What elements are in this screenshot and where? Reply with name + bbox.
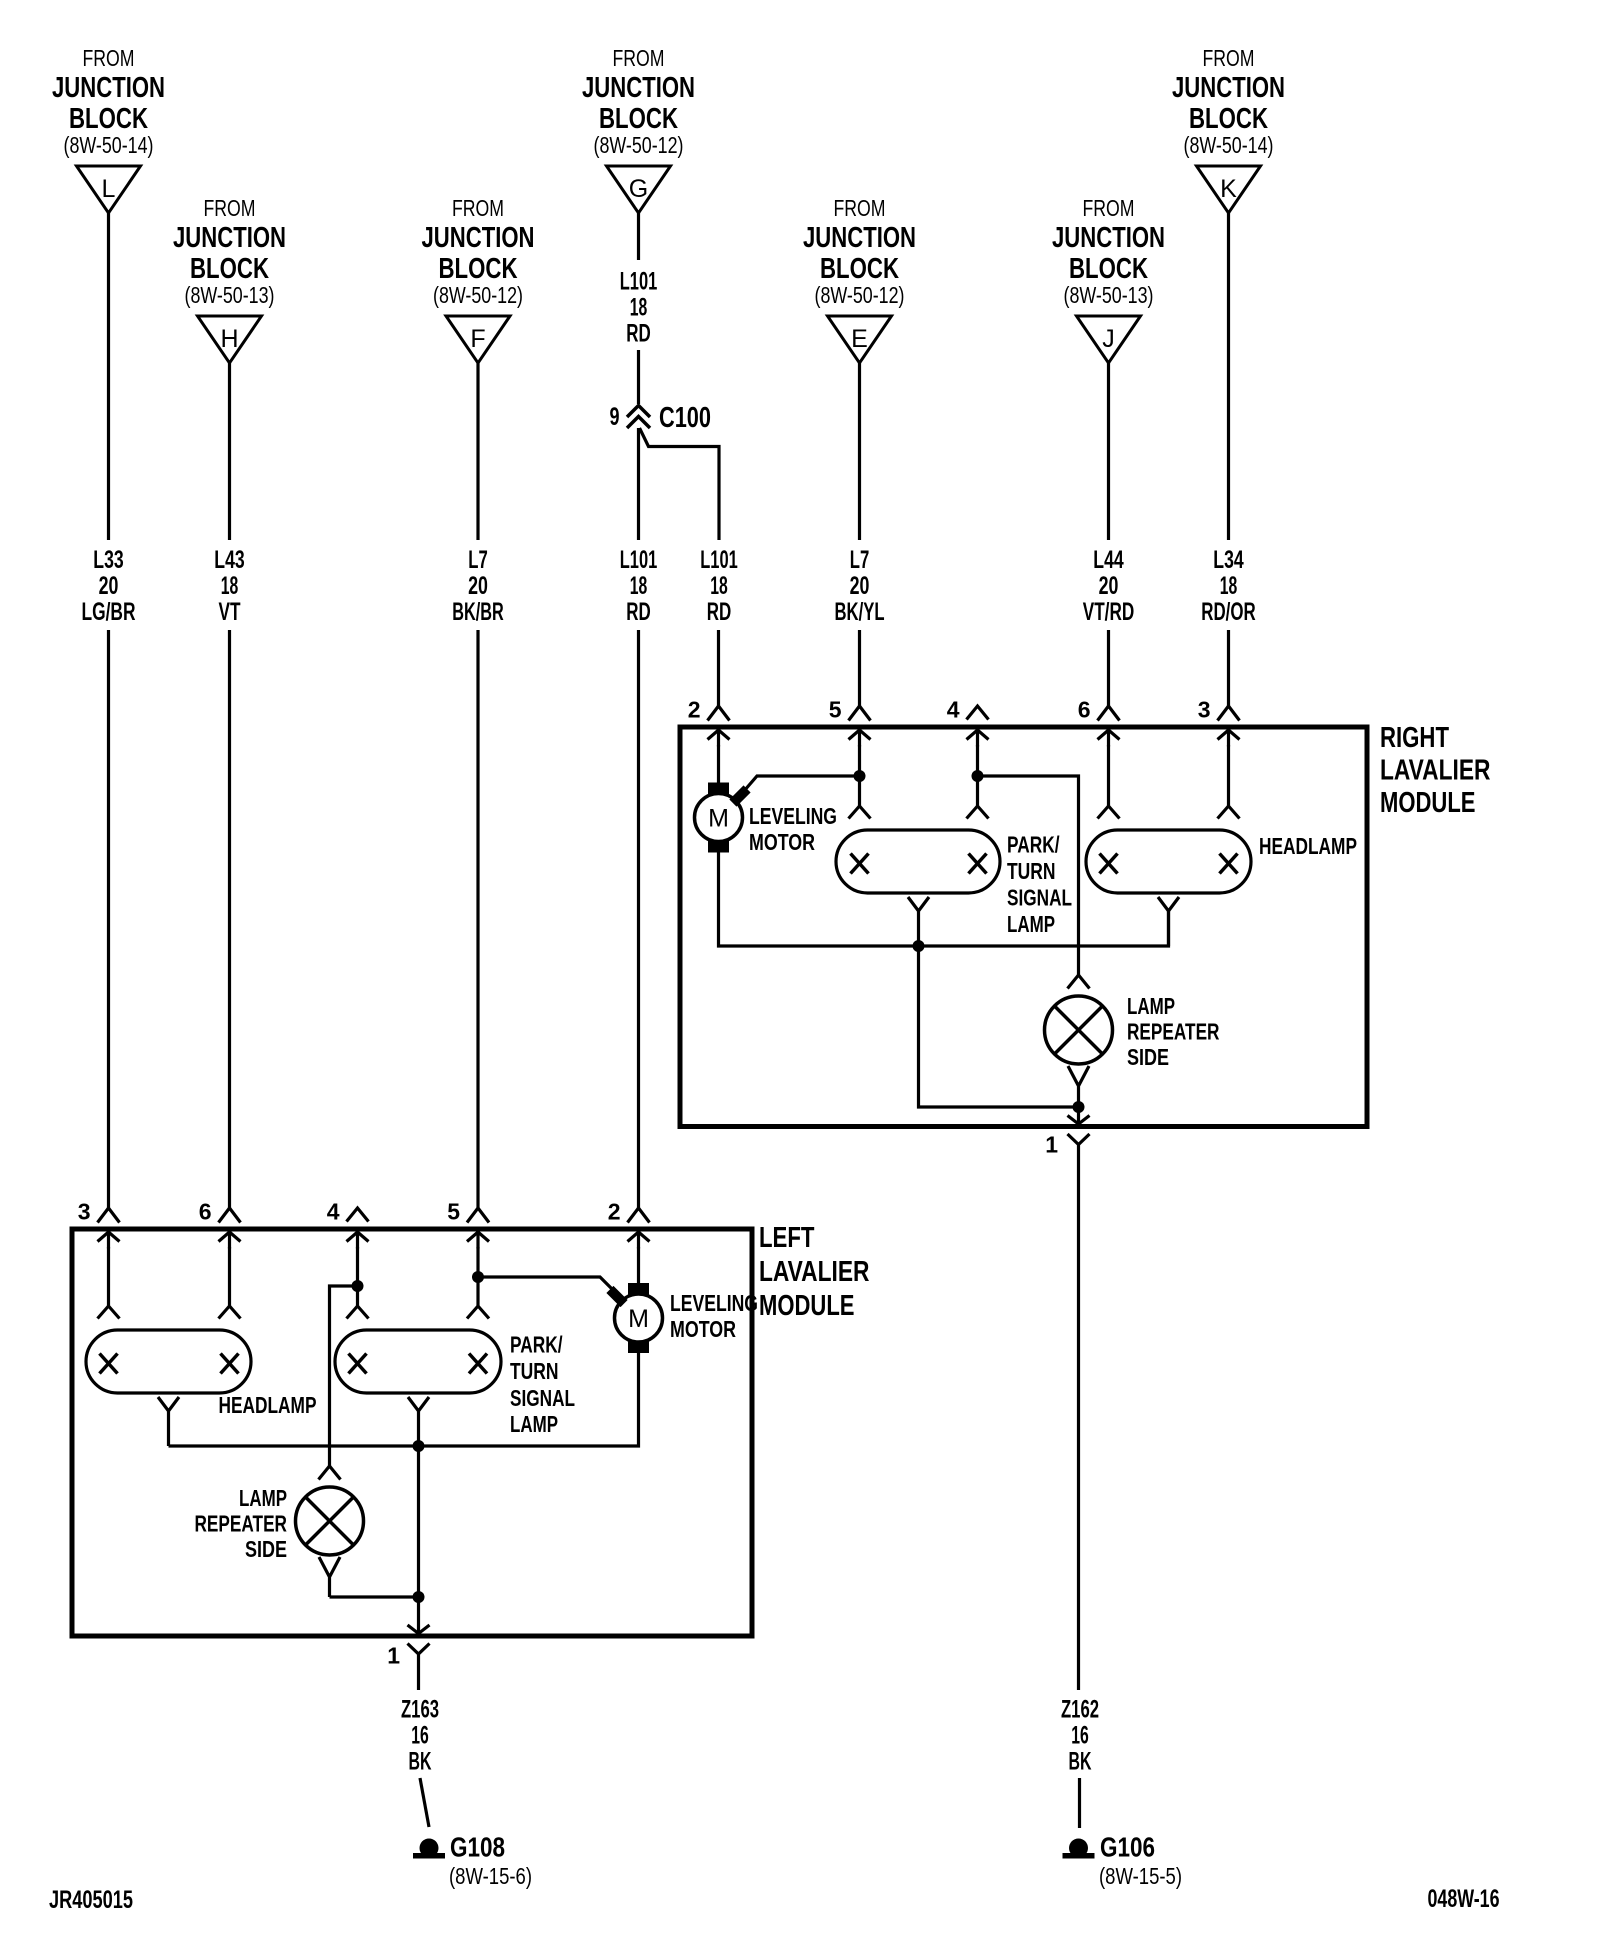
headlamp left module [86,1330,251,1393]
svg-text:JUNCTION: JUNCTION [52,72,165,104]
wire pin4 node to lamp repeater feed [978,776,1079,975]
junction dot pin4 node [352,1280,364,1292]
svg-text:H: H [220,325,238,353]
connector triangle J [1077,316,1141,363]
right lavalier module box [680,727,1367,1127]
svg-text:MOTOR: MOTOR [670,1316,736,1342]
svg-text:LAVALIER: LAVALIER [1380,755,1491,787]
svg-text:L: L [102,175,116,203]
svg-text:L7: L7 [850,546,870,574]
connector fork above headlamp left [98,1306,120,1319]
connector fork above headlamp right [1218,806,1240,819]
svg-text:Z163: Z163 [401,1696,439,1724]
svg-text:18: 18 [630,572,648,600]
svg-text:PARK/: PARK/ [1007,832,1060,858]
svg-text:PARK/: PARK/ [510,1332,563,1358]
leveling motor right [695,794,743,842]
svg-text:M: M [628,1305,649,1333]
svg-text:REPEATER: REPEATER [195,1511,288,1537]
svg-text:BK/YL: BK/YL [835,598,885,626]
wire pin4 node to lamp repeater feed [330,1286,358,1466]
svg-text:20: 20 [1099,572,1119,600]
svg-text:REPEATER: REPEATER [1127,1019,1220,1045]
junction dot pin4 node [972,770,984,782]
svg-text:(8W-50-14): (8W-50-14) [64,132,154,158]
wire to pin1 [1077,1107,1080,1123]
svg-text:1: 1 [387,1643,400,1669]
svg-text:LEVELING: LEVELING [749,803,837,829]
svg-text:(8W-50-13): (8W-50-13) [185,282,275,308]
svg-text:LAMP: LAMP [510,1411,558,1437]
svg-text:JUNCTION: JUNCTION [582,72,695,104]
headlamp bottom fork [158,1397,179,1446]
svg-text:BLOCK: BLOCK [1069,253,1148,285]
svg-text:G: G [629,175,648,203]
svg-text:JUNCTION: JUNCTION [1172,72,1285,104]
headlamp bottom fork [1158,897,1179,946]
svg-text:L101: L101 [620,268,658,296]
svg-text:JUNCTION: JUNCTION [173,222,286,254]
junction dot bus [913,940,925,952]
svg-text:18: 18 [710,572,728,600]
svg-text:L7: L7 [468,546,488,574]
svg-text:BLOCK: BLOCK [439,253,518,285]
wire L33 from L [107,213,110,540]
connector triangle F [446,316,510,363]
svg-text:F: F [470,325,485,353]
junction dot bus [413,1440,425,1452]
lamp repeater side right [1045,996,1113,1064]
svg-text:BLOCK: BLOCK [1189,103,1268,135]
svg-text:16: 16 [1071,1722,1089,1750]
park/turn bottom fork [908,897,929,946]
wire Z162 to ground [1077,1165,1080,1690]
svg-text:MOTOR: MOTOR [749,829,815,855]
svg-text:5: 5 [829,697,842,723]
svg-text:2: 2 [688,697,701,723]
wire diagonal to ground [420,1778,429,1827]
svg-text:SIDE: SIDE [245,1536,287,1562]
leveling motor left [615,1294,663,1342]
park/turn signal lamp right [836,830,1000,893]
wire pin4 down [356,1247,359,1306]
svg-text:(8W-50-12): (8W-50-12) [815,282,905,308]
svg-text:BLOCK: BLOCK [820,253,899,285]
svg-text:18: 18 [1220,572,1238,600]
svg-text:2: 2 [608,1199,621,1225]
svg-text:6: 6 [199,1199,212,1225]
ground G108 [420,1839,439,1858]
junction dot pin5 node [854,770,866,782]
connector triangle G [607,166,671,213]
junction dot lamp repeater out [413,1591,425,1603]
svg-text:RD/OR: RD/OR [1201,598,1256,626]
svg-text:JUNCTION: JUNCTION [1052,222,1165,254]
svg-text:FROM: FROM [83,45,135,71]
ground G106 [1069,1839,1088,1858]
svg-text:RD: RD [707,598,732,626]
connector fork above park/turn right [467,1306,489,1319]
svg-text:SIGNAL: SIGNAL [1007,885,1072,911]
svg-text:9: 9 [610,403,620,431]
connector triangle K [1197,166,1261,213]
svg-text:FROM: FROM [1203,45,1255,71]
connector triangle H [198,316,262,363]
wire pin2 to leveling motor [637,1247,640,1283]
svg-text:SIGNAL: SIGNAL [510,1385,575,1411]
svg-text:JR405015: JR405015 [49,1886,133,1914]
svg-text:3: 3 [78,1199,91,1225]
svg-text:(8W-50-12): (8W-50-12) [433,282,523,308]
svg-text:3: 3 [1198,697,1211,723]
svg-text:BK/BR: BK/BR [452,598,504,626]
svg-text:BK: BK [1069,1748,1092,1776]
wire pin5 down [476,1247,479,1306]
svg-text:20: 20 [468,572,488,600]
lamp repeater bottom fork [319,1557,340,1597]
left lavalier module box [72,1229,752,1636]
svg-text:HEADLAMP: HEADLAMP [219,1392,317,1418]
svg-text:4: 4 [327,1199,340,1225]
svg-text:RD: RD [626,320,651,348]
svg-text:18: 18 [221,572,239,600]
svg-text:BLOCK: BLOCK [190,253,269,285]
connector fork above park/turn right [967,806,989,819]
wire pin5 node to motor diagonal [478,1277,616,1293]
svg-text:TURN: TURN [1007,858,1056,884]
wire motor diagonal to node [744,776,860,791]
connector fork above park/turn left [347,1306,369,1319]
svg-text:16: 16 [411,1722,429,1750]
svg-text:LEFT: LEFT [759,1222,815,1254]
lamp repeater bottom fork [1068,1066,1089,1107]
svg-text:FROM: FROM [1083,195,1135,221]
svg-text:L44: L44 [1093,546,1123,574]
svg-text:TURN: TURN [510,1358,559,1384]
connector fork above lamp repeater [319,1466,341,1480]
svg-text:L101: L101 [700,546,738,574]
ground bus left module [169,1352,639,1446]
wire lamp repeater out [330,1595,419,1598]
svg-text:L34: L34 [1213,546,1243,574]
svg-text:C100: C100 [659,402,711,434]
svg-text:FROM: FROM [834,195,886,221]
svg-text:FROM: FROM [452,195,504,221]
wire to pin1 [417,1597,420,1634]
svg-text:G106: G106 [1100,1832,1155,1863]
svg-text:VT: VT [219,598,241,626]
wire pin5 down [858,745,861,776]
wire bus to lamp repeater out [919,946,1079,1107]
svg-text:(8W-15-5): (8W-15-5) [1099,1863,1182,1889]
wire L101 from G [637,213,640,260]
svg-text:18: 18 [630,294,648,322]
wire pin3 down [107,1247,110,1306]
ground bus right module [719,852,1169,946]
wire bus down [417,1446,420,1597]
headlamp right [1086,830,1251,893]
connector fork above lamp repeater [1068,975,1090,989]
svg-text:LAMP: LAMP [1127,993,1175,1019]
svg-text:FROM: FROM [204,195,256,221]
connector fork above park/turn left [849,806,871,819]
wire Z163 to ground [417,1669,420,1690]
park/turn bottom fork [408,1397,429,1446]
svg-text:BK: BK [409,1748,432,1776]
svg-text:JUNCTION: JUNCTION [803,222,916,254]
svg-text:RD: RD [626,598,651,626]
wire L44 from J [1107,363,1110,540]
svg-text:(8W-15-6): (8W-15-6) [449,1863,532,1889]
svg-text:L43: L43 [214,546,244,574]
wire pin4 down [976,745,979,806]
svg-text:L101: L101 [620,546,658,574]
connector triangle L [77,166,141,213]
connector fork above headlamp left [1098,806,1120,819]
svg-text:BLOCK: BLOCK [599,103,678,135]
svg-text:(8W-50-14): (8W-50-14) [1184,132,1274,158]
svg-text:K: K [1220,175,1237,203]
svg-text:4: 4 [947,697,960,723]
wire L43 from H [228,363,231,540]
svg-text:L33: L33 [93,546,123,574]
svg-text:E: E [851,325,868,353]
connector fork above headlamp right [219,1306,241,1319]
svg-text:LAMP: LAMP [239,1485,287,1511]
wire pin6 down [1107,745,1110,806]
wire L34 from K [1227,213,1230,540]
svg-text:JUNCTION: JUNCTION [422,222,535,254]
svg-text:SIDE: SIDE [1127,1044,1169,1070]
svg-text:20: 20 [850,572,870,600]
svg-text:LG/BR: LG/BR [82,598,136,626]
wire L7 from F [476,363,479,540]
svg-text:1: 1 [1045,1132,1058,1158]
wire pin2 to leveling motor [717,745,720,783]
connector triangle E [828,316,892,363]
svg-text:20: 20 [99,572,119,600]
wire pin3 down [1227,745,1230,806]
svg-text:6: 6 [1078,697,1091,723]
wire L101 below C100 [637,428,640,540]
svg-text:FROM: FROM [613,45,665,71]
connector C100 [627,406,650,429]
svg-text:LAVALIER: LAVALIER [759,1256,870,1288]
svg-text:MODULE: MODULE [759,1290,855,1322]
svg-text:G108: G108 [450,1832,505,1863]
park/turn signal lamp left [335,1330,501,1393]
svg-text:(8W-50-13): (8W-50-13) [1064,282,1154,308]
svg-text:(8W-50-12): (8W-50-12) [594,132,684,158]
svg-text:HEADLAMP: HEADLAMP [1259,833,1357,859]
junction dot pin5 node [472,1271,484,1283]
svg-text:BLOCK: BLOCK [69,103,148,135]
svg-text:5: 5 [447,1199,460,1225]
svg-text:VT/RD: VT/RD [1083,598,1135,626]
wire L7 from E [858,363,861,540]
svg-text:RIGHT: RIGHT [1380,722,1449,754]
wire pin6 down [228,1247,231,1306]
wire branch C100 to right module [640,428,720,540]
svg-text:M: M [708,805,729,833]
lamp repeater side left [296,1487,364,1555]
svg-text:LEVELING: LEVELING [670,1290,758,1316]
svg-text:048W-16: 048W-16 [1428,1885,1500,1913]
svg-text:LAMP: LAMP [1007,911,1055,937]
svg-text:MODULE: MODULE [1380,787,1476,819]
svg-text:J: J [1102,325,1115,353]
junction dot lamp repeater out [1073,1101,1085,1113]
svg-text:Z162: Z162 [1061,1696,1099,1724]
